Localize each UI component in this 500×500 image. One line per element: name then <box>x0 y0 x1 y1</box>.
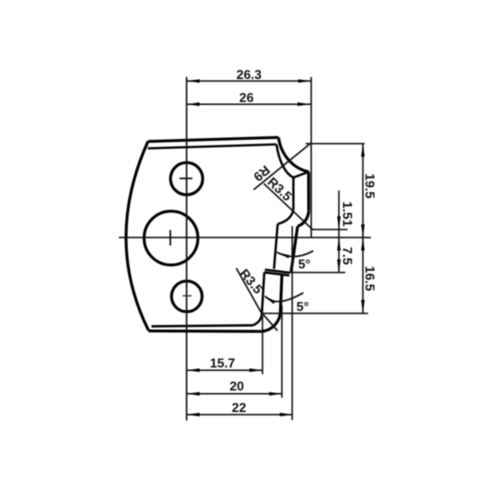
dimension 22 line <box>187 414 293 416</box>
dimension 7.5 line <box>337 238 341 251</box>
part outline: top edge inner bevel line <box>148 144 277 148</box>
profile: corner heel curve <box>278 210 294 224</box>
svg-text:19.5: 19.5 <box>363 173 378 198</box>
dimension 15.7 line <box>187 369 263 371</box>
dimension 19.5 line <box>362 144 364 238</box>
reference line: top of profile <box>306 143 365 145</box>
extension line: right of 26.3/26 <box>310 77 312 238</box>
dimension 20 line <box>187 393 283 395</box>
svg-text:7.5: 7.5 <box>340 247 355 265</box>
hole: top small hole <box>171 163 203 195</box>
part outline: left convex arc edge <box>126 141 148 330</box>
angle arc: upper 5 degree <box>277 251 313 257</box>
extension line: 15.7 right <box>262 316 264 374</box>
leader line: R3.5 lower <box>236 268 277 331</box>
profile: upper 5-degree slant outer <box>291 226 298 272</box>
centerline tick: large hole vertical <box>169 230 171 246</box>
centerline: horizontal through large hole (also dim reference) <box>119 237 371 239</box>
profile: lower 5-degree slant outer with R3.5 bottom corner <box>261 276 282 332</box>
leader line: R9 <box>254 143 311 190</box>
profile: lower slant heel with inner corner curve <box>253 272 264 325</box>
dimension 16.5 line <box>362 238 364 314</box>
part outline: bottom edge inner bevel line <box>152 325 254 326</box>
svg-text:26: 26 <box>239 90 253 105</box>
profile: step face bottom line <box>264 272 289 275</box>
svg-text:1.51: 1.51 <box>340 201 355 226</box>
svg-text:20: 20 <box>230 379 244 394</box>
centerline tick: bottom hole horizontal <box>183 295 192 297</box>
centerline tick: top hole horizontal <box>180 177 193 179</box>
svg-text:16.5: 16.5 <box>363 266 378 291</box>
reference line: mid step level <box>290 272 345 274</box>
angle arc: lower 5 degree <box>265 293 304 302</box>
profile: bevel face top edge <box>293 172 308 178</box>
dimension 1.51: short reference line and down arrow <box>312 229 348 231</box>
reference line: bottom 5 degree <box>261 312 368 314</box>
part outline: top edge outer <box>148 137 279 141</box>
extension line: 22 right (also 5 deg vertical reference) <box>291 226 293 420</box>
extension line: 20 right <box>281 305 283 398</box>
dimension 26 line <box>187 103 311 105</box>
centerline: vertical through holes (also dim extension) <box>186 77 188 421</box>
profile: upper 5-degree slant heel <box>274 224 278 269</box>
profile: step face top line <box>265 270 290 273</box>
leader line: R3.5 upper <box>264 184 313 230</box>
svg-text:22: 22 <box>232 400 246 415</box>
svg-text:R3.5: R3.5 <box>237 266 266 297</box>
profile: R3.5 corner outer below flat <box>298 211 309 226</box>
hole: centre large hole <box>144 211 198 265</box>
profile: cove R9 inner bevel arc <box>277 144 294 177</box>
dimension 26.3 line <box>187 80 312 82</box>
profile: cove R9 outer arc <box>279 137 309 171</box>
part outline: bottom edge outer <box>149 329 262 332</box>
profile: flat heel line <box>292 178 294 210</box>
svg-text:26.3: 26.3 <box>236 67 261 82</box>
svg-text:5°: 5° <box>296 299 308 314</box>
svg-text:15.7: 15.7 <box>210 356 235 371</box>
profile: flat outer silhouette <box>307 172 310 212</box>
svg-text:5°: 5° <box>298 257 310 272</box>
hole: bottom small hole <box>172 281 203 312</box>
